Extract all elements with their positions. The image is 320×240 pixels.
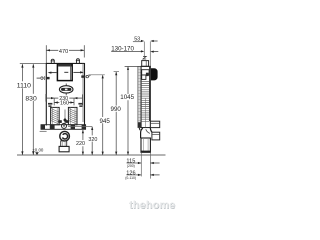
frame top extension line to left dims	[20, 62, 47, 64]
svg-text:(200): (200)	[127, 164, 135, 168]
dimension 220	[76, 130, 85, 155]
side view wall section (hatched)	[138, 66, 141, 127]
bottom extension lines	[141, 153, 150, 179]
frame leg left	[51, 107, 60, 124]
dimension 1045	[120, 67, 134, 156]
svg-text:160: 160	[60, 100, 69, 106]
cistern frame (front view)	[46, 63, 84, 126]
svg-text:thehome: thehome	[129, 200, 175, 212]
floor level marker 0.00	[32, 147, 44, 155]
watermark thehome	[129, 200, 176, 212]
waste outlet stub upper (side view)	[150, 121, 159, 127]
dimension 830 (vertical, left)	[25, 64, 37, 155]
centre line with marker	[63, 110, 67, 124]
base bottom extension for 220	[68, 129, 83, 131]
svg-text:990: 990	[111, 106, 122, 113]
knob height extension for 990	[114, 71, 119, 73]
break symbol above side view	[143, 56, 146, 59]
centre tick below oval	[65, 93, 67, 95]
window right arrow	[73, 71, 83, 73]
outlet pipe down (side view)	[141, 138, 150, 152]
dimension 53 (top of side view)	[133, 37, 158, 67]
dimension 230	[46, 94, 83, 105]
wall anchor rail left	[48, 103, 52, 107]
leg bottom blocks	[58, 120, 69, 123]
label 130-170 (wall thickness)	[111, 45, 158, 52]
flush plate (side view, top)	[142, 61, 149, 67]
ground line	[17, 154, 166, 156]
svg-text:830: 830	[25, 95, 37, 102]
centre tick above oval	[65, 84, 67, 86]
window left arrow	[48, 72, 57, 74]
elbow (side view)	[139, 128, 152, 138]
hanger bolt left (top of frame)	[51, 59, 55, 63]
outlet big circle	[60, 131, 70, 141]
svg-text:320: 320	[88, 137, 97, 143]
dimension 126 (0-110)	[125, 170, 159, 180]
side view column hatch rungs	[142, 81, 149, 121]
dimension 1110 (vertical, left)	[17, 64, 31, 155]
wall lane bottom block	[138, 122, 141, 127]
dimension 945	[100, 75, 111, 155]
dimension 115 (200)	[126, 159, 159, 169]
dimension 990	[111, 72, 122, 155]
water supply connection right	[81, 75, 90, 78]
flush bend small circle	[62, 123, 67, 128]
actuator knob (black, side view)	[151, 68, 158, 80]
inspection window (flush plate opening)	[57, 64, 72, 81]
svg-text:1110: 1110	[17, 82, 31, 89]
svg-text:470: 470	[59, 49, 68, 55]
side view cistern column	[141, 66, 150, 127]
water supply connection left	[37, 76, 50, 79]
side view upper boxes	[142, 70, 149, 80]
svg-text:945: 945	[100, 118, 111, 125]
foot plate	[59, 146, 69, 151]
dimension 470 (top)	[46, 45, 84, 63]
waste outlet stub lower (side view)	[152, 132, 160, 140]
svg-text:220: 220	[76, 141, 85, 147]
wall anchor rail right	[78, 103, 82, 107]
frame top extension for 1045	[125, 65, 151, 67]
base rail	[40, 125, 86, 132]
dimension 160	[54, 98, 74, 106]
svg-text:1045: 1045	[120, 94, 134, 101]
foot stem	[61, 141, 67, 147]
supply height extension for 945	[88, 74, 104, 76]
svg-text:(0-110): (0-110)	[125, 176, 136, 180]
hanger bolt right (top of frame)	[76, 59, 80, 64]
frame leg right	[68, 107, 77, 124]
dimension 320	[88, 127, 97, 155]
flush pipe oval	[59, 86, 73, 93]
small circle extension for 320	[68, 125, 92, 127]
